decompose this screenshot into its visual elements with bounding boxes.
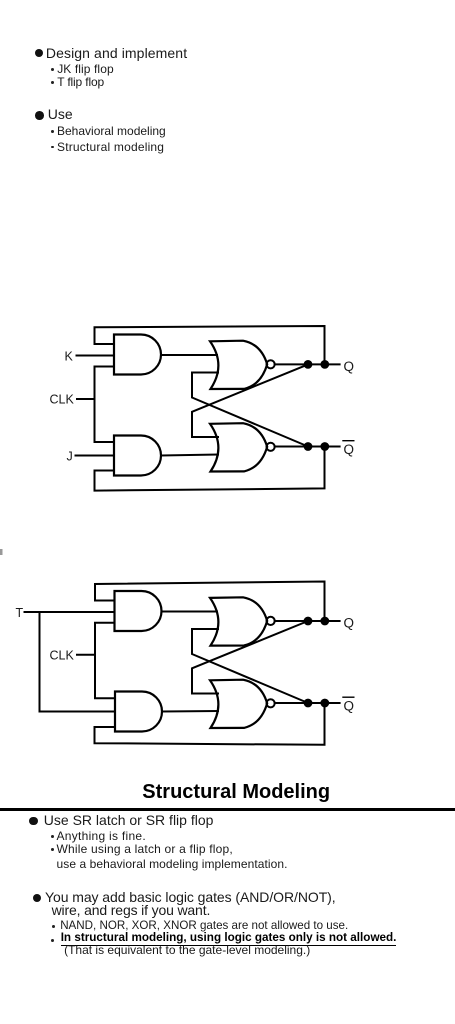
svg-text:J: J [67, 450, 73, 464]
svg-text:K: K [65, 350, 74, 364]
wire CLK2 vertical [95, 623, 114, 699]
bubble U8 [267, 699, 275, 707]
junction node Qbar-feedback [321, 443, 328, 450]
svg-text:CLK: CLK [50, 649, 75, 663]
nor-gate U4 (bottom) [210, 423, 267, 471]
nor-gate U3 (top) [210, 341, 267, 389]
svg-text:Q: Q [344, 698, 355, 713]
wire U7 lower input cross-couple from Q2bar [192, 629, 308, 703]
wire CLK2 input [77, 654, 95, 656]
stray mark left edge [0, 549, 3, 555]
wire Qbar feedback bottom [95, 447, 325, 491]
wire Q feedback top [95, 326, 325, 364]
wire Q2 feedback top [95, 582, 325, 622]
bubble U4 [267, 443, 275, 451]
wire U2 output [161, 455, 218, 456]
svg-text:Q: Q [344, 442, 355, 457]
overline Q2bar [343, 696, 354, 698]
wire U1 output [161, 354, 217, 356]
svg-text:Q: Q [344, 615, 355, 630]
wire Qbar output [275, 446, 340, 448]
wire CLK input [77, 398, 95, 400]
wire J input [76, 455, 115, 457]
wire U6 output [162, 710, 218, 713]
junction node Q2-crosscouple [305, 618, 312, 625]
bubble U7 [267, 617, 275, 625]
bubble U3 [267, 360, 275, 368]
wire Q output [275, 363, 340, 365]
junction node Q2bar-crosscouple [305, 700, 312, 707]
junction node Q-feedback [321, 361, 328, 368]
wire T branch to lower gate [40, 612, 115, 712]
junction node Q2bar-feedback [321, 700, 328, 707]
wire U3 lower input cross-couple from Qbar [192, 373, 308, 447]
svg-text:T: T [16, 606, 24, 620]
wire U8 upper input cross-couple from Q2 [192, 621, 308, 694]
svg-text:CLK: CLK [50, 393, 75, 407]
wire U5 output [162, 611, 218, 613]
and-gate U6 (T lower) [115, 692, 162, 732]
junction node Qbar-crosscouple [305, 443, 312, 450]
junction node Q-crosscouple [305, 361, 312, 368]
wire Q2bar feedback bottom [95, 703, 325, 745]
wire U4 upper input cross-couple from Q [192, 364, 308, 437]
and-gate U5 (T upper) [115, 591, 162, 631]
wire K input [77, 355, 115, 357]
overline Qbar [343, 440, 354, 442]
nor-gate U8 (bottom) [210, 680, 267, 728]
wire T input [25, 611, 115, 613]
junction node Q2-feedback [321, 618, 328, 625]
wire CLK vertical [95, 367, 115, 443]
svg-text:Q: Q [344, 359, 355, 374]
and-gate U1 (K clocked) [114, 335, 161, 375]
wire Q2 output [275, 620, 340, 622]
wire Q2bar output [275, 702, 340, 704]
and-gate U2 (J clocked) [114, 436, 161, 476]
nor-gate U7 (top) [210, 597, 267, 645]
